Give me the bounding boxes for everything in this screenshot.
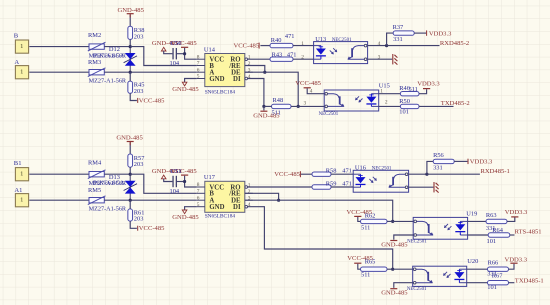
resistor R43 (270, 57, 293, 61)
port B1 (15, 168, 28, 181)
svg-text:6: 6 (197, 67, 200, 73)
svg-text:R56: R56 (433, 152, 444, 159)
net label RXD485-2 (387, 45, 440, 47)
svg-text:4: 4 (310, 89, 313, 95)
svg-text:471: 471 (342, 180, 352, 187)
wire (29, 71, 89, 73)
svg-text:GND: GND (209, 204, 224, 211)
svg-text:GND-485: GND-485 (381, 290, 408, 297)
capacitor C51 (172, 176, 173, 187)
svg-text:TXD485-1: TXD485-1 (515, 277, 544, 284)
svg-text:471: 471 (342, 167, 352, 174)
wire (177, 53, 185, 55)
wire (467, 282, 488, 284)
wire (130, 47, 197, 66)
wire (129, 72, 131, 81)
svg-text:VDD3.3: VDD3.3 (417, 81, 440, 88)
svg-text:101: 101 (487, 284, 497, 291)
resistor R63 (486, 219, 507, 223)
svg-text:203: 203 (134, 216, 144, 223)
wire (358, 217, 361, 221)
svg-text:R63: R63 (486, 212, 497, 219)
wire (129, 39, 131, 46)
wire (393, 220, 414, 222)
resistor R66 (488, 267, 509, 271)
wire (468, 234, 489, 236)
wire (358, 264, 361, 269)
svg-text:203: 203 (134, 88, 144, 95)
svg-text:R64: R64 (492, 227, 503, 234)
svg-text:GND-485: GND-485 (116, 134, 143, 141)
wire (307, 88, 324, 93)
optocoupler U13 NEC2501 (314, 42, 368, 64)
svg-text:NEC2501: NEC2501 (407, 287, 427, 292)
power port VDD3.3 (R46) (423, 88, 430, 89)
svg-text:6: 6 (197, 195, 200, 201)
power port GND-485 (U17 pin5) (182, 210, 187, 214)
svg-text:7: 7 (197, 189, 200, 195)
svg-text:4: 4 (248, 74, 251, 80)
wire (GND pin 5) (185, 207, 197, 210)
svg-text:3: 3 (248, 196, 251, 202)
svg-text:U16: U16 (355, 165, 366, 172)
resistor R64 (488, 233, 510, 237)
svg-text:U13: U13 (315, 36, 326, 43)
wire (368, 45, 387, 47)
svg-text:R40: R40 (271, 37, 282, 44)
resistor R56 (433, 159, 454, 163)
svg-text:DI: DI (233, 76, 241, 83)
wire (130, 221, 137, 228)
svg-text:VDD3.3: VDD3.3 (505, 209, 528, 216)
svg-text:VCC-485: VCC-485 (171, 168, 197, 175)
capacitor C50 (172, 48, 173, 59)
wire (29, 173, 89, 175)
net label RTS-4851 (510, 234, 515, 236)
power port VCC-485 (below R45) (137, 98, 138, 103)
TVS diode D13 (129, 174, 131, 200)
wire (387, 268, 393, 270)
svg-text:3: 3 (304, 101, 307, 107)
wire (467, 268, 488, 270)
wire (468, 220, 486, 222)
varistor RM3 (89, 70, 104, 75)
wire (129, 142, 131, 154)
wire (129, 167, 131, 174)
earth ground (434, 182, 439, 193)
wire (379, 93, 401, 95)
power port GND-485 (R48) (263, 106, 265, 110)
wire (414, 32, 426, 34)
resistor R50 (400, 104, 419, 108)
wire (DI) (247, 79, 264, 107)
IC U17 SN65LBC184 (205, 181, 245, 212)
junction (129, 173, 132, 176)
wire (DE) (245, 200, 393, 221)
resistor R38 (128, 26, 133, 39)
wire (291, 105, 324, 107)
junction (263, 71, 266, 74)
port A (15, 66, 28, 79)
svg-text:2: 2 (248, 61, 251, 67)
svg-text:NEC2501: NEC2501 (407, 239, 427, 244)
svg-text:2: 2 (301, 54, 304, 60)
svg-text:101: 101 (487, 238, 497, 245)
svg-text:U20: U20 (467, 258, 478, 265)
junction (262, 105, 265, 108)
svg-text:U14: U14 (204, 46, 216, 53)
svg-text:5: 5 (197, 74, 200, 80)
wire (GND pin 5) (185, 79, 197, 83)
wire (29, 46, 89, 48)
resistor R61 (128, 209, 133, 221)
svg-text:MZ27-A1-56R: MZ27-A1-56R (89, 78, 127, 85)
svg-text:2: 2 (248, 189, 251, 195)
power port VDD3.3 (R63) (511, 216, 518, 217)
wire (164, 51, 173, 54)
wire (RO) (247, 58, 270, 60)
junction (129, 71, 132, 74)
wire (104, 46, 130, 48)
svg-text:331: 331 (433, 165, 443, 172)
net label TXD485-2 (419, 105, 454, 107)
svg-text:1: 1 (248, 55, 251, 61)
junction (183, 52, 186, 55)
power port VDD3.3 (R56) (468, 159, 469, 164)
junction (297, 105, 300, 108)
svg-text:P6KE6.8CA: P6KE6.8CA (93, 52, 125, 59)
wire (RE tie to DE) (245, 193, 279, 200)
wire (331, 186, 353, 188)
svg-text:TXD485-2: TXD485-2 (441, 100, 470, 107)
varistor RM5 (89, 198, 104, 203)
svg-text:VCC-485: VCC-485 (171, 40, 197, 47)
svg-text:1: 1 (301, 41, 304, 47)
svg-text:7: 7 (197, 61, 200, 67)
svg-text:U19: U19 (466, 210, 477, 217)
resistor R45 (128, 81, 133, 93)
wire (129, 200, 131, 209)
wire (264, 105, 272, 107)
svg-text:RM2: RM2 (88, 32, 101, 39)
wire (260, 45, 270, 47)
net label TXD485-1 (509, 282, 515, 284)
resistor R48 (272, 104, 292, 108)
svg-text:203: 203 (134, 161, 144, 168)
svg-text:B: B (14, 32, 19, 39)
junction (129, 45, 132, 48)
power port VCC-485 (below R61) (137, 226, 138, 231)
svg-text:R66: R66 (488, 260, 499, 267)
wire (RE tie to DE) (245, 66, 265, 73)
svg-text:RXD485-1: RXD485-1 (481, 168, 510, 175)
svg-text:471: 471 (285, 33, 295, 40)
svg-text:1: 1 (20, 43, 23, 50)
svg-text:B1: B1 (14, 160, 22, 167)
svg-text:VCC-485: VCC-485 (139, 97, 165, 104)
svg-text:RM3: RM3 (88, 59, 101, 66)
svg-text:101: 101 (399, 109, 409, 116)
resistor R62 (361, 219, 388, 223)
svg-text:A1: A1 (14, 187, 22, 194)
svg-text:DI: DI (233, 204, 241, 211)
svg-text:A: A (14, 59, 19, 66)
svg-text:8: 8 (197, 182, 200, 188)
wire (454, 160, 467, 162)
wire (394, 235, 413, 240)
wire (104, 173, 130, 175)
power port GND-485 (U20 pin3) (390, 288, 397, 289)
wire (164, 179, 173, 182)
wire (104, 199, 196, 201)
optocoupler U16 NEC2501 (353, 170, 408, 192)
svg-text:203: 203 (134, 33, 144, 40)
wire (DI) (247, 207, 392, 270)
svg-text:R50: R50 (399, 98, 410, 105)
svg-text:P6KE6.8CA: P6KE6.8CA (93, 180, 125, 187)
wire (DE) (245, 72, 298, 106)
svg-text:VCC-485: VCC-485 (234, 42, 260, 49)
TVS diode D12 (129, 47, 131, 73)
wire (387, 220, 393, 222)
resistor R46 (400, 92, 419, 96)
wire (185, 48, 197, 59)
wire (104, 71, 196, 73)
wire (394, 283, 413, 288)
power port VDD3.3 (R37) (426, 30, 427, 35)
wire (293, 58, 314, 60)
varistor RM2 (89, 44, 104, 49)
svg-text:SN65LBC184: SN65LBC184 (205, 90, 236, 96)
svg-text:R43: R43 (272, 51, 283, 58)
svg-text:471: 471 (287, 51, 297, 58)
svg-text:U17: U17 (204, 174, 216, 181)
wire (387, 33, 394, 46)
junction (385, 44, 388, 47)
wire (29, 199, 89, 201)
resistor R67 (488, 281, 509, 285)
svg-text:GND: GND (209, 76, 224, 83)
wire (507, 217, 515, 221)
wire (129, 14, 131, 26)
svg-text:R67: R67 (492, 273, 503, 280)
optocoupler U20 NEC2501 (413, 266, 467, 286)
svg-text:GND-485: GND-485 (118, 7, 145, 14)
wire (409, 173, 427, 175)
power port VDD3.3 (R66) (510, 263, 517, 264)
svg-text:511: 511 (272, 110, 281, 117)
optocoupler U19 NEC2501 (413, 217, 467, 239)
svg-text:104: 104 (170, 60, 180, 67)
svg-text:R62: R62 (365, 213, 376, 220)
svg-text:GND-485: GND-485 (172, 214, 199, 221)
optocoupler U15 NEC2501 (324, 90, 379, 111)
svg-text:8: 8 (197, 54, 200, 60)
port B (15, 40, 28, 53)
junction (391, 268, 394, 271)
svg-text:R59: R59 (326, 180, 337, 187)
earth ground (393, 54, 398, 65)
IC U14 SN65LBC184 (205, 54, 245, 87)
resistor R40 (270, 43, 293, 47)
varistor RM4 (89, 172, 104, 177)
power port GND-485 (U14 pin5) (182, 82, 187, 86)
wire (293, 45, 314, 47)
svg-text:2: 2 (385, 100, 388, 106)
wire (393, 268, 413, 270)
svg-text:NEC2501: NEC2501 (319, 112, 339, 117)
svg-text:GND-485: GND-485 (381, 241, 408, 248)
svg-text:RXD485-2: RXD485-2 (440, 40, 469, 47)
junction (391, 220, 394, 223)
wire (409, 186, 434, 188)
wire (331, 173, 353, 175)
svg-text:VDD3.3: VDD3.3 (470, 159, 493, 166)
wire (185, 176, 197, 187)
svg-text:VCC-485: VCC-485 (139, 225, 165, 232)
resistor R58 (312, 172, 331, 176)
svg-text:R48: R48 (273, 97, 284, 104)
svg-text:1: 1 (248, 183, 251, 189)
svg-text:1: 1 (20, 171, 23, 178)
wire (130, 93, 137, 100)
svg-text:VCC-485: VCC-485 (274, 171, 300, 178)
svg-text:4: 4 (248, 202, 251, 208)
svg-text:SN65LBC184: SN65LBC184 (205, 213, 236, 219)
wire (130, 174, 197, 193)
wire (379, 105, 401, 107)
svg-text:MZ27-A1-56R: MZ27-A1-56R (89, 206, 127, 213)
svg-text:331: 331 (393, 36, 403, 43)
resistor R37 (393, 31, 414, 35)
svg-text:R65: R65 (365, 258, 376, 265)
junction (129, 199, 132, 202)
svg-text:5: 5 (197, 202, 200, 208)
svg-text:511: 511 (361, 271, 370, 278)
svg-text:1: 1 (20, 69, 23, 76)
power port GND-485 (U19 pin3) (390, 240, 397, 241)
svg-text:1: 1 (20, 197, 23, 204)
svg-text:RTS-4851: RTS-4851 (515, 229, 542, 236)
svg-text:GND-485: GND-485 (172, 86, 199, 93)
svg-text:511: 511 (361, 224, 370, 231)
resistor R57 (128, 154, 133, 167)
svg-text:NEC2501: NEC2501 (372, 167, 392, 172)
net label RXD485-1 (427, 173, 480, 175)
wire (177, 181, 185, 183)
wire (RO) (247, 186, 312, 188)
junction (183, 180, 186, 183)
resistor R59 (312, 185, 331, 189)
wire (301, 173, 312, 175)
svg-text:VDD3.3: VDD3.3 (429, 30, 452, 37)
svg-text:RM4: RM4 (88, 160, 102, 167)
svg-text:NEC2501: NEC2501 (332, 38, 352, 43)
svg-text:RM5: RM5 (88, 187, 101, 194)
wire (509, 264, 515, 269)
wire (427, 161, 433, 174)
svg-text:VDD3.3: VDD3.3 (505, 257, 528, 264)
svg-text:VCC-485: VCC-485 (295, 80, 321, 87)
junction (277, 199, 280, 202)
port A1 (15, 194, 28, 207)
svg-text:104: 104 (170, 188, 180, 195)
svg-text:R58: R58 (326, 167, 337, 174)
svg-text:R37: R37 (393, 24, 404, 31)
wire (419, 89, 427, 94)
resistor R65 (361, 267, 388, 271)
junction (425, 173, 428, 176)
wire (368, 58, 393, 60)
svg-text:3: 3 (248, 68, 251, 74)
